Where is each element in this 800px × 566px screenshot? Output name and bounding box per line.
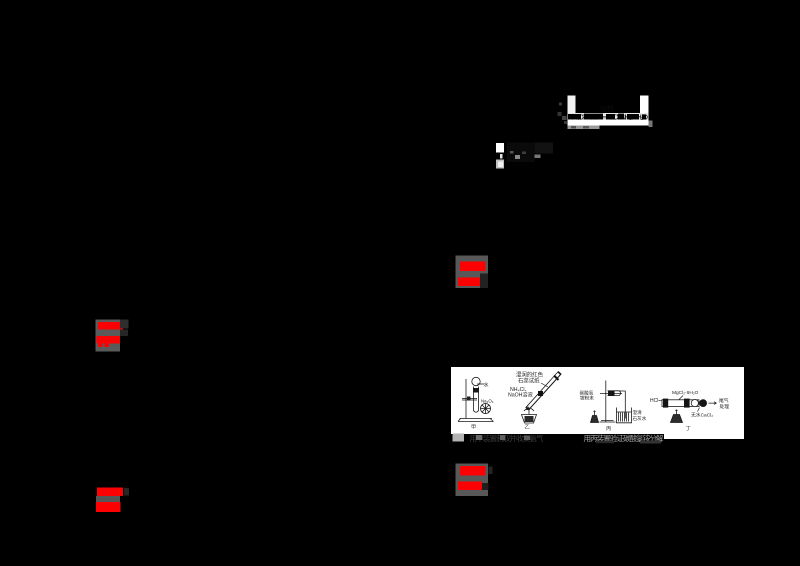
answer cluster 4 red bar bottom: [96, 502, 121, 512]
answer cluster 1 red bar top: [98, 322, 123, 330]
乙 tube stopper: [554, 376, 559, 381]
svg-text:NaOH溶液: NaOH溶液: [508, 390, 533, 398]
equation glyph row: white strip under black glyph text: [568, 113, 649, 120]
equation glyph row black chunks: [568, 114, 646, 120]
equation image 2 light gray lower tab: [496, 160, 504, 169]
answer cluster 3 dark marks right: [489, 467, 493, 475]
svg-text:湿润的红色: 湿润的红色: [516, 371, 544, 379]
丁 rubber connector 2: [684, 399, 690, 408]
svg-text:石蕊试纸: 石蕊试纸: [518, 376, 540, 384]
甲 clamp knob: [467, 397, 471, 401]
svg-text:铵粉末: 铵粉末: [580, 394, 594, 401]
丁 bulb: [691, 400, 698, 407]
甲 test tube: [474, 387, 479, 413]
svg-text:处理: 处理: [720, 403, 730, 410]
caption row A lighter specks: [476, 435, 482, 440]
black mask over glyph row top: [576, 96, 641, 113]
answer cluster 2 gray block: [456, 256, 489, 289]
svg-text:尾气: 尾气: [719, 397, 729, 404]
乙 tube mouth drip: [526, 406, 530, 410]
乙 evaporating dish / lamp: [522, 408, 537, 423]
乙 tilted test tube: [527, 373, 560, 410]
caption row A leading light block: [453, 434, 465, 442]
甲 top ring circle: [472, 377, 480, 385]
丁 lamp: [671, 411, 683, 423]
丁 glass tube: [662, 400, 699, 407]
svg-text:水: 水: [484, 382, 489, 389]
answer cluster 4 dark marks right: [124, 488, 129, 496]
丙 heated test tube: [608, 391, 621, 396]
svg-text:Na₂O₂: Na₂O₂: [481, 399, 494, 404]
equation image 2 white tab: [496, 143, 504, 153]
answer cluster 1 gray block: [96, 320, 121, 352]
svg-text:加热: 加热: [600, 104, 614, 113]
甲 stand crossbar clamp: [462, 398, 477, 400]
丁 out arrow: [709, 402, 717, 405]
丁 drying ball black: [699, 399, 707, 407]
丙 beaker: [617, 408, 632, 423]
丁 CaCl2 pointer: [698, 408, 700, 412]
equation 2 mid-gray marks: [515, 155, 520, 159]
甲 iron stand pole: [465, 379, 467, 419]
answer cluster 3 red bar bottom: [458, 482, 482, 491]
equation 2 dark right blocks: [535, 143, 553, 154]
answer cluster 2 dark corner: [480, 274, 488, 289]
甲 stand base: [458, 419, 494, 422]
apparatus figure white background band: [451, 367, 744, 434]
equation image 1 white patch right tab: [640, 96, 649, 121]
乙 lamp body shade: [525, 416, 534, 422]
丙 crossbar: [600, 393, 622, 395]
丙 clamp dark blob: [608, 391, 615, 397]
gray bits right of bottom band: [649, 121, 653, 128]
丙 lamp flame: [593, 410, 596, 412]
answer cluster 1 red bar bottom: [97, 336, 121, 344]
svg-text:石灰水: 石灰水: [633, 415, 647, 422]
faint specks left of equation image: [559, 103, 562, 106]
甲 stopper dark: [473, 388, 479, 393]
svg-text:丙: 丙: [606, 425, 611, 432]
乙 pointer line: [541, 383, 548, 387]
answer cluster 3 red bar top: [460, 466, 486, 476]
丙 delivery tube: [619, 391, 625, 419]
answer cluster 2 red bar bottom: [458, 278, 482, 287]
equation image 1 bottom white band: [568, 120, 649, 126]
caption row B dark sub-row: [640, 441, 661, 444]
丁 rubber connector 1: [663, 399, 668, 408]
丙 beaker water hatch: [617, 412, 632, 422]
丙 stand base: [600, 421, 616, 423]
svg-text:无水CaCl₂: 无水CaCl₂: [691, 412, 713, 419]
丁 lamp flame: [675, 409, 678, 411]
answer cluster 4 red bar top: [97, 488, 123, 497]
answer cluster 1 red teeth: [98, 344, 103, 348]
svg-text:丁: 丁: [686, 425, 691, 432]
equation image 2 white sliver: [500, 154, 503, 159]
丁 pointer: [679, 396, 684, 401]
甲 starburst bulb: [481, 404, 491, 414]
svg-text:乙: 乙: [525, 424, 530, 431]
丁 HCl arrow: [659, 399, 664, 402]
svg-text:HCl: HCl: [650, 398, 658, 404]
svg-text:甲: 甲: [471, 424, 476, 431]
甲 water arrow: [477, 383, 484, 385]
answer cluster 1 dark marks right: [120, 320, 129, 329]
svg-text:MgCl₂·6H₂O: MgCl₂·6H₂O: [672, 390, 699, 396]
gray band under equation left (白色 text remnants): [568, 126, 600, 130]
丙 lamp: [591, 412, 599, 423]
equation 2 dark glyph field: [507, 143, 535, 163]
answer cluster 3 gray block: [456, 464, 489, 497]
answer cluster 4 gray band: [96, 496, 120, 503]
丙 stand pole: [605, 381, 607, 423]
equation image 1 white patch left tab: [568, 96, 576, 115]
answer cluster 2 red bar top: [460, 262, 486, 272]
乙 clamp blob: [538, 391, 543, 396]
apparatus band right lower extension: [664, 433, 744, 439]
